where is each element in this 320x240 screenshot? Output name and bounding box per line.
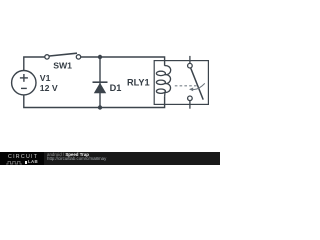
node junction bottom [98, 105, 102, 109]
svg-text:D1: D1 [110, 83, 122, 93]
footer logo CIRCUIT [8, 155, 38, 160]
relay RLY1 box [154, 61, 208, 105]
footer logo LAB block [25, 161, 27, 165]
wire SW1 to coil [81, 57, 165, 66]
svg-text:RLY1: RLY1 [127, 78, 150, 88]
wire V1 top riser [24, 57, 45, 71]
svg-text:V1: V1 [40, 73, 51, 83]
svg-text:12 V: 12 V [40, 83, 58, 93]
footer line 2 [47, 157, 106, 162]
wire D1 branch [99, 57, 101, 108]
relay link dashed line [175, 85, 197, 87]
footer logo waveform [6, 160, 26, 165]
relay coil [156, 66, 170, 97]
relay actuation arrow [192, 83, 204, 89]
footer bar [0, 152, 220, 165]
footer logo LAB [28, 160, 38, 164]
footer line 1 [47, 153, 89, 158]
diode D1 [93, 82, 108, 93]
svg-text:SW1: SW1 [53, 60, 72, 70]
wire V1 bottom to coil bottom [24, 95, 165, 108]
relay contact [188, 56, 204, 109]
switch SW1 [45, 53, 81, 59]
node junction top [98, 55, 102, 59]
voltage source V1 [12, 71, 36, 95]
